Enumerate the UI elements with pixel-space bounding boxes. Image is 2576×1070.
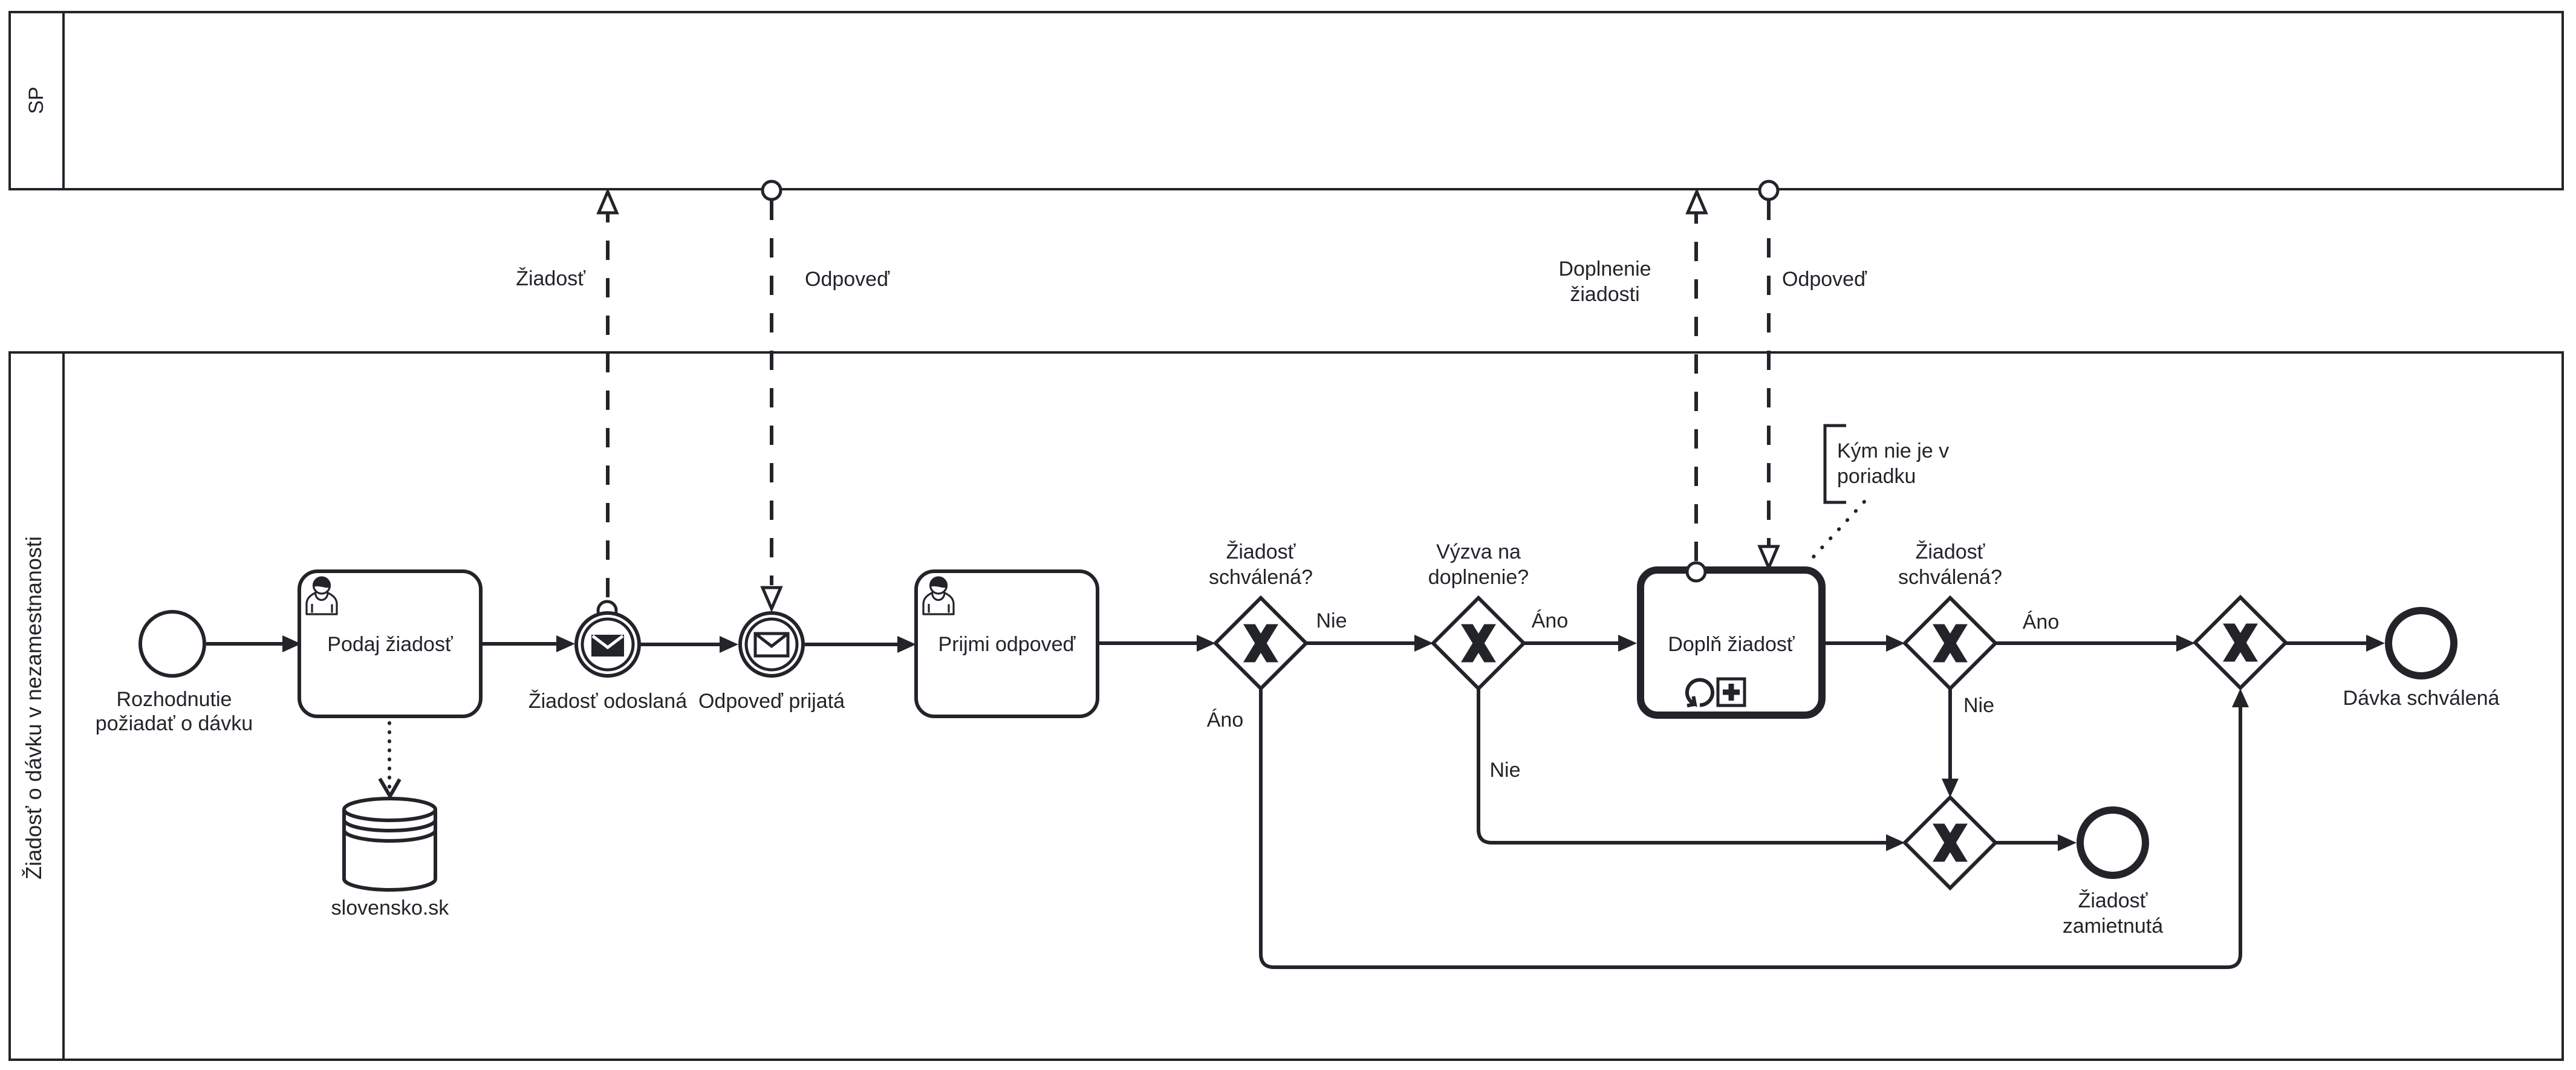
call activity Dopln ziadost [1641,570,1822,715]
message flow Doplnenie ziadosti: Dopln ziadost to SP pool [1694,213,1698,561]
end event Davka schvalena [2389,611,2454,676]
data store slovensko.sk [344,799,435,890]
svg-text:Odpoveď: Odpoveď [1782,268,1867,291]
svg-text:Žiadosť odoslaná: Žiadosť odoslaná [529,690,687,713]
user task Prijmi odpoved [916,571,1098,716]
svg-text:poriadku: poriadku [1837,465,1916,488]
wire Nie: gateway1 to gateway2 [1306,641,1418,645]
svg-text:Podaj žiadosť: Podaj žiadosť [327,633,454,656]
svg-text:zamietnutá: zamietnutá [2063,915,2163,938]
svg-text:Doplň žiadosť: Doplň žiadosť [1668,633,1795,656]
svg-text:požiadať o dávku: požiadať o dávku [96,712,253,735]
svg-text:Dávka schválená: Dávka schválená [2343,687,2500,710]
end event Ziadost zamietnuta [2080,810,2145,875]
wire: Ziadost odoslana to Odpoved prijata [641,643,723,646]
svg-text:Áno: Áno [1207,708,1244,731]
wire Nie: gateway2 down and right to lower gateway [1478,689,1890,843]
wire Ano: gateway2 to Dopln ziadost [1524,641,1622,645]
message flow Ziadost: event to SP pool [606,213,610,597]
svg-text:schválená?: schválená? [1209,566,1313,589]
svg-text:Rozhodnutie: Rozhodnutie [117,688,232,711]
message catch event Odpoved prijata [740,613,803,676]
user task icon [307,593,337,615]
wire: Prijmi odpoved to gateway1 [1098,641,1200,645]
svg-text:SP: SP [25,86,48,114]
subprocess plus marker [1718,679,1745,705]
svg-text:Nie: Nie [1316,609,1347,632]
message flow source circle on call activity top [1687,563,1705,581]
svg-text:Áno: Áno [2023,611,2060,634]
svg-text:žiadosti: žiadosti [1570,283,1639,306]
svg-text:Doplnenie: Doplnenie [1558,258,1651,280]
wire: Odpoved prijata to Prijmi odpoved [805,643,901,646]
pool SP (collapsed participant) [10,12,2563,189]
svg-text:Žiadosť o dávku v nezamestnano: Žiadosť o dávku v nezamestnanosti [21,536,46,880]
user task Podaj ziadost [299,571,481,716]
wire: lower gateway to end event Ziadost zamietnuta [1995,841,2061,845]
message flow Odpoved 2: SP pool to Dopln ziadost [1767,201,1771,545]
loop marker [1687,680,1712,706]
svg-text:Žiadosť: Žiadosť [1916,540,1986,563]
annotation association [1807,502,1864,564]
svg-text:Žiadosť: Žiadosť [2078,889,2148,912]
pool Ziadost o davku v nezamestnanosti [10,352,2563,1060]
svg-text:Výzva na: Výzva na [1436,540,1521,563]
wire: start event to Podaj ziadost [206,642,286,646]
gateway1 Ziadost schvalena? [1215,598,1306,689]
wire: Dopln ziadost to gateway3 [1826,641,1890,645]
start event Rozhodnutie poziadat o davku [140,612,204,676]
gateway2 Vyzva na doplnenie? [1433,598,1524,689]
svg-text:doplnenie?: doplnenie? [1428,566,1529,589]
svg-text:Žiadosť: Žiadosť [1226,540,1296,563]
wire Ano: gateway1 down, right, up to merge gateway [1261,689,2240,967]
message flow Odpoved: SP pool to Odpoved prijata [770,201,773,585]
svg-text:Prijmi odpoveď: Prijmi odpoveď [938,633,1076,656]
svg-text:Nie: Nie [1963,694,1994,717]
wire: Podaj ziadost to Ziadost odoslana [481,642,560,646]
merge gateway [2195,597,2286,688]
svg-text:Áno: Áno [1532,609,1569,632]
svg-text:schválená?: schválená? [1898,566,2002,589]
gateway3 Ziadost schvalena? [1905,598,1995,689]
user task icon 2 [923,593,954,615]
svg-text:Nie: Nie [1489,759,1520,782]
text annotation Kym nie je v poriadku [1825,426,1846,502]
svg-text:Odpoveď: Odpoveď [805,268,890,291]
svg-text:Kým nie je v: Kým nie je v [1837,439,1949,462]
svg-text:Odpoveď prijatá: Odpoveď prijatá [698,690,845,713]
lower merge gateway [1905,797,1995,888]
svg-text:Žiadosť: Žiadosť [516,267,586,290]
message throw event Ziadost odoslana [576,613,639,676]
wire Ano: gateway3 to merge gateway [1995,641,2180,645]
svg-text:slovensko.sk: slovensko.sk [331,897,450,919]
wire: merge gateway to end event Davka schvalena [2286,641,2370,645]
wire Nie: gateway3 down to lower gateway [1948,689,1952,782]
data association: Podaj ziadost to slovensko.sk [388,723,391,793]
